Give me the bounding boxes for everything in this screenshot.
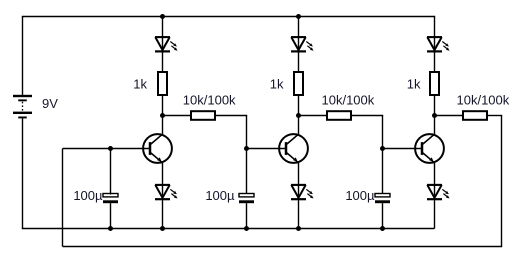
resistor R2 10k/100k (horizontal) xyxy=(191,111,215,120)
junction top rail / stage 2 xyxy=(296,14,301,19)
wire battery negative down to ground rail xyxy=(22,118,24,228)
transistor Q3 (NPN) xyxy=(415,134,444,163)
wire R2 right end to corner xyxy=(215,115,247,117)
capacitor C3 100µ (electrolytic) xyxy=(375,194,390,204)
wire R1 to collector node xyxy=(162,95,164,116)
wire feedback riser (right) up to R6 xyxy=(501,116,503,247)
svg-text:1k: 1k xyxy=(270,76,284,91)
wire left rail: top rail to battery positive xyxy=(22,17,24,95)
LED L5 light arrows xyxy=(442,42,449,51)
LED L3 light arrows xyxy=(306,42,313,51)
battery B1 (9V multi-cell) xyxy=(13,95,32,119)
resistor R4 10k/100k (horizontal) xyxy=(327,111,351,120)
junction base node Q2 / capacitor C2 xyxy=(244,146,249,151)
node collector Q1 (junction) xyxy=(160,113,165,118)
wire capacitor C2 to ground rail xyxy=(246,203,248,228)
svg-text:100µ: 100µ xyxy=(345,188,375,203)
resistor R5 1k (vertical) xyxy=(430,72,439,95)
junction top rail / stage 1 xyxy=(160,14,165,19)
wire LED L1 cathode to resistor R1 xyxy=(162,51,164,73)
wire Q1 base node down to capacitor C1 xyxy=(110,149,112,195)
LED L1 light arrows xyxy=(170,42,177,51)
wire Q1 base wire xyxy=(63,148,152,150)
svg-text:10k/100k: 10k/100k xyxy=(183,93,236,108)
capacitor C1 100µ (electrolytic) xyxy=(103,194,118,204)
LED L5 (top indicator) xyxy=(427,36,442,51)
wire top power rail (+9V) xyxy=(22,16,435,18)
wire coupling riser down to base node of Q3 xyxy=(382,116,384,149)
wire Q1 emitter to LED L2 anode xyxy=(162,162,164,186)
transistor Q2 (NPN) xyxy=(279,134,308,163)
wire feedback bottom run xyxy=(63,246,503,248)
wire Q2 emitter to LED L4 anode xyxy=(298,162,300,186)
wire top rail to LED L3 anode xyxy=(298,17,300,39)
LED L4 light arrows xyxy=(306,189,313,198)
wire R3 to collector node xyxy=(298,95,300,116)
wire R5 to collector node xyxy=(434,95,436,116)
wire base node down to capacitor C2 xyxy=(246,149,248,195)
junction Q1 base / capacitor C1 xyxy=(108,146,113,151)
svg-text:100µ: 100µ xyxy=(205,188,235,203)
junction base node Q3 / capacitor C3 xyxy=(380,146,385,151)
LED L2 light arrows xyxy=(170,189,177,198)
resistor R3 1k (vertical) xyxy=(294,72,303,95)
wire LED L5 cathode to resistor R5 xyxy=(434,51,436,73)
wire R6 right end to corner xyxy=(487,115,502,117)
wire feedback riser (left) up to Q1 base wire xyxy=(62,149,64,247)
junction LED L2 / ground rail xyxy=(160,226,165,231)
junction capacitor C2 / ground rail xyxy=(244,226,249,231)
wire LED L4 cathode to ground rail xyxy=(298,199,300,228)
wire top rail to LED L5 anode xyxy=(434,17,436,39)
wire capacitor C1 to ground rail xyxy=(110,203,112,228)
wire collector node down to Q2 collector xyxy=(298,116,300,136)
svg-text:1k: 1k xyxy=(407,76,421,91)
wire coupling riser down to base node of Q2 xyxy=(246,116,248,149)
svg-text:1k: 1k xyxy=(133,76,147,91)
wire collector node down to Q1 collector xyxy=(162,116,164,136)
resistor R6 10k/100k (horizontal) xyxy=(463,111,487,120)
resistor R1 1k (vertical) xyxy=(158,72,167,95)
junction LED L4 / ground rail xyxy=(296,226,301,231)
wire base node to Q3 base xyxy=(383,148,424,150)
LED L4 (bottom indicator) xyxy=(291,184,306,199)
wire base node down to capacitor C3 xyxy=(382,149,384,195)
svg-text:9V: 9V xyxy=(42,96,58,111)
wire collector node down to Q3 collector xyxy=(434,116,436,136)
wire LED L2 cathode to ground rail xyxy=(162,199,164,228)
junction capacitor C1 / ground rail xyxy=(108,226,113,231)
wire LED L6 cathode to ground rail xyxy=(434,199,436,228)
node collector Q3 (junction) xyxy=(432,113,437,118)
LED L6 light arrows xyxy=(442,189,449,198)
LED L3 (top indicator) xyxy=(291,36,306,51)
LED L2 (bottom indicator) xyxy=(155,184,170,199)
junction capacitor C3 / ground rail xyxy=(380,226,385,231)
wire ground rail (0V) xyxy=(22,228,435,230)
transistor Q1 (NPN) xyxy=(143,134,172,163)
node collector Q2 (junction) xyxy=(296,113,301,118)
svg-text:10k/100k: 10k/100k xyxy=(457,93,510,108)
svg-text:100µ: 100µ xyxy=(73,188,103,203)
wire capacitor C3 to ground rail xyxy=(382,203,384,228)
wire collector node to resistor R4 xyxy=(299,115,328,117)
wire collector node to resistor R2 xyxy=(163,115,192,117)
wire Q3 emitter to LED L6 anode xyxy=(434,162,436,186)
wire collector node to resistor R6 xyxy=(435,115,464,117)
svg-text:10k/100k: 10k/100k xyxy=(322,93,375,108)
LED L1 (top indicator) xyxy=(155,36,170,51)
LED L6 (bottom indicator) xyxy=(427,184,442,199)
wire base node to Q2 base xyxy=(247,148,288,150)
wire LED L3 cathode to resistor R3 xyxy=(298,51,300,73)
capacitor C2 100µ (electrolytic) xyxy=(239,194,254,204)
wire top rail to LED L1 anode xyxy=(162,17,164,39)
wire R4 right end to corner xyxy=(351,115,383,117)
